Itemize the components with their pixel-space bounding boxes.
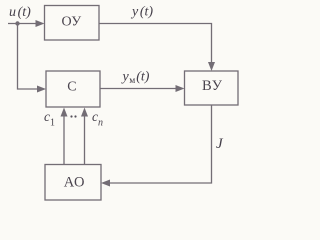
svg-text:ОУ: ОУ [62,15,82,30]
wire cn from AO to C [84,113,86,165]
wire y(t) from OU to VU [99,24,212,65]
ellipsis dots [70,115,72,117]
block AO (adaptation unit) [45,165,101,201]
svg-text:ВУ: ВУ [202,78,223,94]
block OU (controlled object) [45,6,100,41]
wire branch u(t) to C [18,24,40,90]
block C (comparator) [46,71,100,107]
wire c1 from AO to C [63,113,65,165]
arrowhead into VU top [208,62,215,71]
arrowhead cn into C bottom [81,108,88,117]
wire u(t) input [8,23,38,25]
svg-text:y(t): y(t) [130,5,153,20]
svg-text:u(t): u(t) [9,5,31,20]
arrowhead into OU [36,20,45,27]
node branch dot [15,21,19,25]
arrowhead into AO right [101,180,110,187]
arrowhead into C [37,86,46,93]
block VU (computing unit) [185,71,239,105]
svg-text:С: С [67,79,76,94]
wire J from VU to AO [108,105,212,183]
wire y_m(t) from C to VU [100,88,178,90]
arrowhead into VU left [176,85,185,92]
svg-text:АО: АО [64,174,85,190]
arrowhead c1 into C bottom [61,108,68,117]
